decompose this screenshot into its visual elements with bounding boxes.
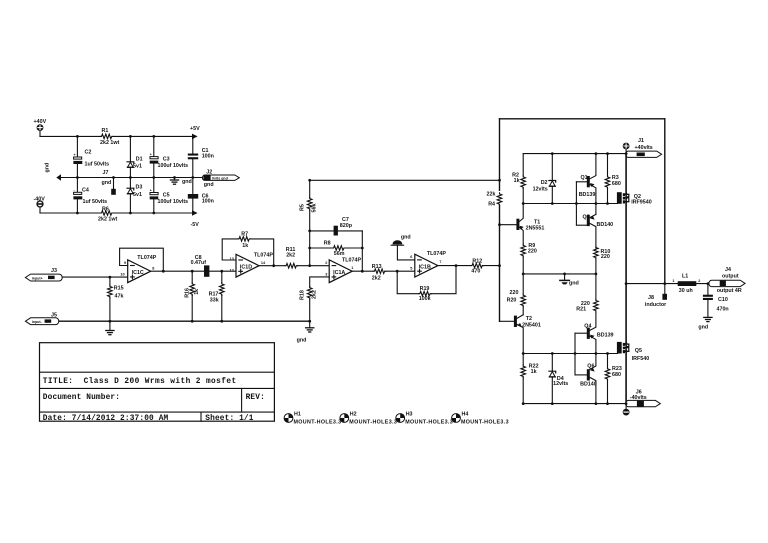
wire IC1B output (438, 265, 471, 267)
svg-text:TL074P: TL074P (342, 257, 361, 263)
svg-text:Q4: Q4 (584, 323, 591, 329)
wire IC1D output (259, 265, 285, 267)
svg-text:R16: R16 (185, 288, 191, 298)
resistor R17 (209, 271, 225, 321)
wire IC1D feedback loop (222, 239, 274, 266)
svg-text:R18: R18 (299, 290, 305, 300)
svg-text:H3: H3 (406, 411, 413, 417)
svg-text:R1: R1 (102, 128, 109, 134)
svg-text:output: output (722, 273, 739, 279)
bottom -rail wire (40, 212, 192, 214)
wire +40 rail (523, 153, 626, 155)
svg-text:TL074P: TL074P (427, 251, 446, 257)
wire R5 node vertical (309, 180, 311, 265)
svg-text:C5: C5 (163, 192, 170, 198)
resistor R6 (98, 206, 118, 222)
svg-text:8: 8 (152, 266, 154, 270)
resistor R3 (605, 154, 621, 204)
svg-text:220: 220 (510, 290, 519, 296)
mosfet Q5 IRF540 (617, 342, 649, 362)
transistor Q4 (575, 323, 614, 353)
svg-text:D3: D3 (136, 184, 143, 190)
svg-text:12: 12 (230, 269, 234, 273)
svg-text:gnd: gnd (569, 281, 579, 287)
svg-text:BD140: BD140 (580, 382, 597, 388)
resistor R21 (576, 274, 598, 327)
wire feedback box top (500, 118, 665, 120)
svg-text:output 4R: output 4R (717, 288, 742, 294)
svg-text:-5V: -5V (191, 222, 200, 228)
svg-text:1k: 1k (514, 178, 520, 184)
svg-text:2k2: 2k2 (311, 290, 317, 299)
svg-text:IRF540: IRF540 (632, 356, 650, 362)
mount hole H1 (284, 411, 341, 425)
svg-text:470n: 470n (717, 307, 729, 313)
resistor R12 (471, 258, 500, 274)
capacitor C2 (73, 136, 109, 177)
ground under R15 (106, 321, 114, 335)
supply +40V (34, 119, 47, 136)
svg-text:gnd: gnd (401, 235, 411, 241)
junction dots power section (76, 135, 194, 214)
svg-text:Date: 7/14/2012 2:37:00 AM: Date: 7/14/2012 2:37:00 AM (43, 415, 169, 423)
svg-text:R5: R5 (299, 204, 305, 211)
svg-text:2N5551: 2N5551 (526, 226, 545, 232)
svg-text:1uf 50vlts: 1uf 50vlts (83, 199, 108, 205)
svg-text:TL074P: TL074P (137, 255, 156, 261)
resistor R7 (238, 231, 251, 249)
gnd arrow left (45, 163, 62, 181)
wire IC1C feedback loop (120, 248, 164, 271)
svg-text:C2: C2 (85, 150, 92, 156)
resistor R15 (108, 277, 124, 321)
svg-text:1: 1 (672, 279, 674, 283)
svg-text:J5: J5 (51, 312, 57, 318)
svg-text:56m: 56m (334, 251, 345, 257)
svg-text:470: 470 (471, 269, 480, 275)
title block frame (40, 343, 275, 422)
resistor R4 (487, 191, 502, 207)
supply -40V (34, 197, 46, 213)
svg-text:10: 10 (120, 273, 124, 277)
svg-text:J4: J4 (725, 267, 731, 273)
svg-text:C3: C3 (163, 157, 170, 163)
svg-text:D1: D1 (136, 156, 143, 162)
connector J5 input- (25, 312, 58, 324)
svg-text:J2: J2 (206, 169, 212, 175)
svg-text:gnd: gnd (45, 163, 51, 173)
mount hole H2 (340, 411, 397, 425)
svg-text:+40vlts: +40vlts (635, 145, 653, 151)
svg-text:R21: R21 (576, 307, 586, 313)
svg-text:R13: R13 (372, 264, 382, 270)
connector J4 output (709, 267, 745, 294)
transistor T2 (500, 315, 541, 354)
svg-text:Q6: Q6 (587, 363, 594, 369)
mount hole H3 (396, 411, 453, 425)
svg-text:12vlts: 12vlts (533, 187, 548, 193)
wire IC1A output (352, 270, 373, 272)
svg-text:C4: C4 (82, 187, 89, 193)
+5V arrow (192, 134, 198, 140)
svg-text:Q3: Q3 (583, 214, 590, 220)
svg-text:2N5401: 2N5401 (522, 322, 541, 328)
wire gate rail top (523, 203, 617, 205)
svg-text:Sheet: 1/1: Sheet: 1/1 (205, 415, 253, 423)
wire Q4 Q6 base tie (574, 333, 576, 375)
junction dots right section (498, 152, 709, 405)
svg-text:2k2 1wt: 2k2 1wt (100, 140, 120, 146)
resistor R16 (185, 271, 200, 321)
ground mid (560, 274, 579, 287)
svg-text:13: 13 (230, 257, 234, 261)
zener D4 (549, 354, 568, 404)
svg-text:R7: R7 (241, 231, 248, 237)
-5V arrow (192, 210, 198, 216)
svg-text:680: 680 (612, 372, 621, 378)
svg-text:100k: 100k (419, 296, 431, 302)
op-amp IC1C (120, 255, 156, 282)
capacitor C8 (191, 255, 210, 277)
svg-text:2k2 1wt: 2k2 1wt (98, 216, 118, 222)
zener D2 (533, 154, 556, 204)
svg-text:7: 7 (439, 260, 441, 264)
svg-text:R8: R8 (324, 241, 331, 247)
svg-text:L1: L1 (682, 273, 688, 279)
svg-text:REV:: REV: (246, 394, 265, 402)
svg-text:gnd: gnd (182, 179, 192, 185)
wire IC1C output (151, 270, 204, 272)
svg-text:H1: H1 (294, 411, 301, 417)
transistor T1 (500, 204, 545, 245)
connector J7 (102, 170, 116, 195)
svg-text:2: 2 (698, 279, 700, 283)
wire J3 to IC1C (62, 276, 127, 278)
wire feedback box right vertical (664, 119, 666, 284)
svg-text:TL074P: TL074P (254, 253, 273, 259)
op-amp IC1B (410, 251, 446, 277)
svg-text:R19: R19 (420, 286, 430, 292)
op-amp IC1A (325, 257, 361, 282)
svg-text:5: 5 (410, 267, 412, 271)
title block text (43, 378, 265, 423)
svg-text:2k2: 2k2 (372, 275, 381, 281)
svg-text:5v1: 5v1 (133, 164, 142, 170)
svg-text:IC1B: IC1B (419, 265, 431, 271)
ground symbol near J2 (170, 178, 191, 186)
resistor R20 (507, 274, 526, 315)
wire feedback top (310, 179, 500, 181)
svg-text:gnd: gnd (204, 182, 214, 188)
svg-text:100uf 10vlts: 100uf 10vlts (158, 199, 189, 205)
svg-text:30 uh: 30 uh (679, 288, 693, 294)
mount hole H4 (452, 411, 509, 425)
zener D3 (127, 178, 142, 214)
svg-text:100n: 100n (202, 199, 214, 205)
svg-text:IC1A: IC1A (333, 270, 345, 276)
resistor R23 (605, 354, 622, 404)
capacitor C5 (150, 178, 188, 214)
resistor R11 (285, 247, 329, 268)
wire bottom -40 rail (523, 403, 626, 405)
svg-text:Q1: Q1 (581, 175, 588, 181)
svg-text:0vlts gnd: 0vlts gnd (212, 176, 228, 180)
mosfet Q2 IRF9540 (617, 192, 652, 206)
svg-text:0.47uf: 0.47uf (191, 260, 207, 266)
svg-text:2: 2 (325, 261, 327, 265)
connector J6 (623, 390, 661, 416)
connector J1 (623, 138, 662, 157)
svg-text:BD139: BD139 (597, 333, 614, 339)
resistor R18 (299, 277, 329, 321)
svg-text:MOUNT-HOLE3.3: MOUNT-HOLE3.3 (405, 419, 453, 425)
svg-text:J3: J3 (51, 268, 57, 274)
connector J2 (202, 169, 239, 188)
svg-text:1k: 1k (531, 369, 537, 375)
svg-text:2k2: 2k2 (286, 252, 295, 258)
wire Q1 Q3 base tie (575, 182, 577, 225)
svg-text:BD140: BD140 (597, 222, 614, 228)
ground under R18 (297, 321, 314, 343)
wire driver row (523, 353, 617, 355)
wire gnd mid rail (61, 177, 204, 179)
wire C8 to IC1D (209, 270, 236, 272)
inductor L1 (672, 273, 700, 294)
svg-text:gnd: gnd (698, 324, 708, 330)
resistor R8 (310, 241, 363, 257)
capacitor C4 (73, 178, 107, 214)
zener D1 (127, 136, 143, 177)
svg-text:9: 9 (124, 261, 126, 265)
svg-text:12vlts: 12vlts (553, 381, 568, 387)
svg-text:-40V: -40V (34, 197, 46, 203)
capacitor C3 (150, 136, 188, 177)
svg-text:C10: C10 (718, 297, 728, 303)
svg-text:-: - (74, 188, 76, 192)
svg-text:IC1D: IC1D (240, 265, 252, 271)
resistor R22 (521, 354, 539, 404)
svg-text:J7: J7 (103, 170, 109, 176)
capacitor C7 (310, 217, 363, 236)
svg-text:-40vlts: -40vlts (630, 395, 647, 401)
svg-text:IC1C: IC1C (132, 270, 144, 276)
wire C7 R8 right vertical (361, 231, 363, 271)
svg-text:R20: R20 (507, 298, 517, 304)
svg-text:100n: 100n (202, 154, 214, 160)
svg-text:MOUNT-HOLE3.3: MOUNT-HOLE3.3 (294, 419, 342, 425)
svg-text:R6: R6 (102, 206, 109, 212)
svg-text:gnd: gnd (297, 338, 307, 344)
svg-text:1uf 50vlts: 1uf 50vlts (85, 161, 110, 167)
svg-text:+: + (150, 152, 152, 156)
svg-text:H4: H4 (462, 411, 469, 417)
wire main output vertical (625, 154, 627, 404)
svg-text:+: + (150, 188, 152, 192)
svg-text:+40V: +40V (34, 119, 47, 125)
svg-text:H2: H2 (350, 411, 357, 417)
svg-text:J8: J8 (648, 295, 654, 301)
svg-text:MOUNT-HOLE3.3: MOUNT-HOLE3.3 (349, 419, 397, 425)
junction dots mid section (109, 179, 458, 323)
svg-text:R12: R12 (472, 258, 482, 264)
svg-text:D2: D2 (541, 180, 548, 186)
ground dome IC1B (391, 235, 415, 260)
svg-text:100uf 10vlts: 100uf 10vlts (158, 163, 189, 169)
svg-text:Document Number:: Document Number: (43, 394, 120, 402)
svg-text:IRF9540: IRF9540 (631, 200, 652, 206)
resistor R1 (100, 128, 120, 146)
svg-text:inductor: inductor (645, 302, 666, 308)
svg-text:Q5: Q5 (635, 348, 642, 354)
transistor Q3 (577, 214, 613, 248)
svg-text:14: 14 (261, 261, 266, 265)
svg-text:820p: 820p (340, 223, 353, 229)
svg-text:5v1: 5v1 (133, 192, 142, 198)
wire mid gnd rail (523, 273, 596, 275)
svg-text:R15: R15 (114, 286, 124, 292)
svg-text:+5V: +5V (190, 126, 200, 132)
svg-text:6: 6 (410, 255, 412, 259)
capacitor C6 (188, 178, 214, 214)
svg-text:33k: 33k (210, 297, 219, 303)
wire output rail (626, 283, 711, 285)
svg-text:input+: input+ (32, 276, 43, 280)
resistor R5 (299, 197, 317, 212)
svg-text:680: 680 (612, 181, 621, 187)
svg-text:1k: 1k (242, 243, 248, 249)
svg-text:input-: input- (32, 320, 43, 324)
svg-text:T2: T2 (526, 316, 532, 322)
svg-text:56k: 56k (311, 204, 317, 213)
resistor R2 (512, 154, 525, 204)
top +rail wire (40, 135, 192, 137)
resistor R10 (594, 246, 611, 274)
op-amp IC1D (230, 253, 274, 278)
svg-text:J1: J1 (638, 138, 644, 144)
svg-text:220: 220 (528, 248, 537, 254)
svg-text:BD139: BD139 (579, 192, 596, 198)
transistor Q1 (576, 154, 596, 215)
connector J3 input+ (25, 268, 62, 281)
capacitor C1 (188, 136, 214, 177)
svg-text:TITLE: Class D 200 Wrms with: TITLE: Class D 200 Wrms with 2 mosfet (43, 378, 237, 386)
resistor R19 (419, 286, 432, 302)
svg-text:3: 3 (325, 273, 327, 277)
svg-text:1k: 1k (194, 289, 200, 295)
svg-text:1: 1 (351, 266, 353, 270)
svg-text:R23: R23 (612, 366, 622, 372)
svg-text:220: 220 (601, 254, 610, 260)
svg-text:47k: 47k (115, 294, 124, 300)
svg-text:R4: R4 (488, 202, 495, 208)
transistor Q6 (575, 354, 597, 404)
svg-text:+: + (74, 153, 76, 157)
wire R19 feedback loop (397, 266, 456, 294)
wire comparator node vertical (499, 119, 501, 321)
svg-text:gnd: gnd (102, 180, 112, 186)
wire gnd bottom rail (59, 320, 310, 322)
resistor R13 (372, 264, 415, 281)
resistor R9 (521, 243, 537, 274)
svg-text:MOUNT-HOLE3.3: MOUNT-HOLE3.3 (461, 419, 509, 425)
svg-text:22k: 22k (487, 191, 496, 197)
connector J8 inductor pad (645, 284, 667, 309)
capacitor C10 (698, 284, 728, 331)
